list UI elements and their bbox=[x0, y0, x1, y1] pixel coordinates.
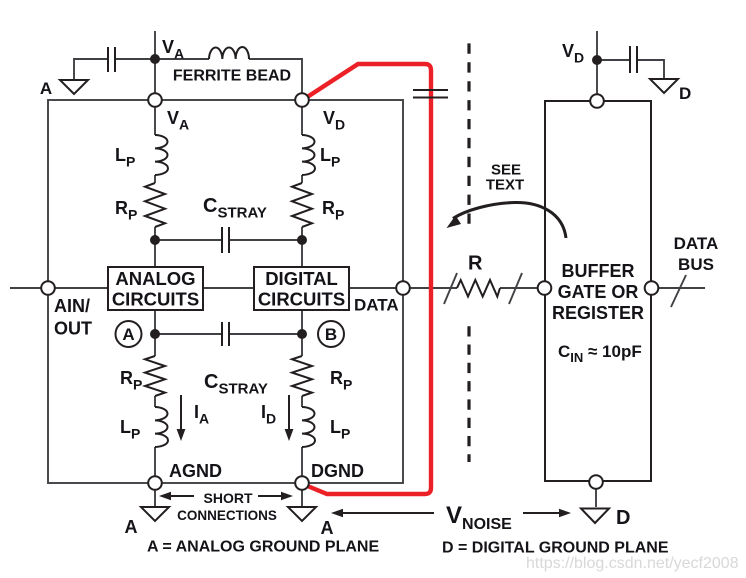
dashed analog/digital boundary line (lower) bbox=[467, 326, 470, 462]
node VD supply dot bbox=[592, 55, 602, 65]
wire VA node to LP coil bbox=[154, 100, 156, 135]
dashed analog/digital boundary line (upper) bbox=[467, 43, 470, 224]
resistor RP upper right bbox=[292, 183, 312, 227]
wire ANALOG box to node A bbox=[154, 310, 156, 356]
junction dot upper left bbox=[150, 235, 160, 245]
svg-text:A: A bbox=[125, 517, 138, 537]
wire main signal line AIN to R bbox=[10, 287, 457, 289]
wire CSTRAY upper left bbox=[155, 239, 222, 241]
red noise current return path bbox=[307, 64, 432, 494]
resistor R (series damping) bbox=[457, 280, 500, 297]
capacitor CSTRAY lower plates bbox=[222, 322, 229, 346]
wire break slash on data bus bbox=[671, 275, 686, 307]
ground symbol A (top left) bbox=[60, 80, 88, 94]
wire ferrite bead top left segment bbox=[155, 58, 209, 60]
wire break slash left of R bbox=[444, 273, 457, 304]
node VA open circle bbox=[148, 93, 162, 107]
svg-text:DATA: DATA bbox=[354, 296, 399, 315]
arrow short connections left bbox=[168, 495, 194, 497]
box ANALOG CIRCUITS bbox=[108, 267, 203, 310]
svg-text:CIRCUITS: CIRCUITS bbox=[112, 289, 199, 310]
node A circled letter bbox=[116, 321, 142, 347]
wire CSTRAY upper right bbox=[229, 239, 302, 241]
wire lower RP to LP (right) bbox=[301, 396, 303, 407]
node VD open circle bbox=[295, 93, 309, 107]
wire ferrite bead right segment down to VD node bbox=[249, 59, 302, 100]
svg-text:A: A bbox=[40, 79, 52, 98]
svg-text:OUT: OUT bbox=[54, 319, 92, 339]
svg-text:D: D bbox=[616, 507, 630, 529]
capacitor CSTRAY upper plates bbox=[222, 227, 229, 253]
svg-text:FERRITE BEAD: FERRITE BEAD bbox=[173, 68, 291, 85]
svg-text:AIN/: AIN/ bbox=[54, 296, 90, 316]
wire decoupling cap to ground A bbox=[74, 59, 108, 80]
svg-text:BUS: BUS bbox=[678, 255, 714, 274]
capacitor C (VA decoupling) plates bbox=[108, 47, 115, 72]
wire lower LP to AGND (left) bbox=[154, 447, 156, 483]
resistor RP lower left bbox=[145, 356, 165, 396]
capacitor stray coupling across red path bbox=[413, 90, 448, 98]
inductor LP lower right bbox=[302, 407, 315, 447]
inductor LP upper right bbox=[302, 135, 315, 175]
svg-text:TEXT: TEXT bbox=[486, 177, 524, 194]
wire lower LP to DGND (right) bbox=[301, 447, 303, 483]
curved arrow SEE TEXT bbox=[453, 202, 566, 238]
ground symbol AGND triangle bbox=[141, 507, 169, 521]
ground symbol D (buffer bottom) bbox=[581, 509, 609, 524]
arrow VNOISE to D bbox=[523, 512, 561, 514]
wire VD node to LP coil bbox=[301, 100, 303, 135]
svg-text:A: A bbox=[122, 325, 134, 344]
svg-text:A: A bbox=[321, 518, 334, 538]
svg-text:D = DIGITAL GROUND PLANE: D = DIGITAL GROUND PLANE bbox=[442, 540, 669, 557]
svg-text:DGND: DGND bbox=[311, 461, 364, 481]
svg-text:https://blog.csdn.net/yecf2008: https://blog.csdn.net/yecf2008 bbox=[526, 555, 739, 572]
svg-text:DIGITAL: DIGITAL bbox=[265, 268, 338, 289]
svg-text:DATA: DATA bbox=[674, 234, 719, 253]
wire DGND node to ground bbox=[301, 483, 303, 507]
wire buffer ground stub bbox=[595, 482, 597, 507]
node buffer input open circle bbox=[538, 281, 552, 295]
box DIGITAL CIRCUITS bbox=[254, 267, 349, 310]
wire VD supply stub (buffer) bbox=[596, 31, 598, 101]
wire break slash right of R bbox=[509, 273, 522, 304]
capacitor C (VD decoupling) plates bbox=[630, 46, 637, 73]
svg-text:R: R bbox=[468, 253, 483, 275]
wire AGND node to ground bbox=[154, 483, 156, 507]
node buffer ground open circle bbox=[589, 475, 603, 489]
inductor LP upper left bbox=[155, 135, 168, 175]
arrow short connections right bbox=[258, 495, 284, 497]
wire LP coil to RP resistor (left) bbox=[154, 175, 156, 183]
wire CSTRAY lower left bbox=[155, 333, 222, 335]
wire LP coil to RP resistor (right) bbox=[301, 175, 303, 183]
svg-text:B: B bbox=[325, 325, 337, 344]
node VA supply dot bbox=[150, 54, 160, 64]
wire VA supply stub bbox=[154, 31, 156, 100]
inductor LP lower left bbox=[155, 407, 168, 447]
wire lower RP to LP (left) bbox=[154, 396, 156, 407]
svg-text:GATE OR: GATE OR bbox=[558, 282, 639, 302]
ground symbol D (top right) bbox=[650, 79, 678, 93]
wire DIGITAL box to node B bbox=[301, 310, 303, 356]
wire RP to DIGITAL box bbox=[301, 227, 303, 267]
node buffer output open circle bbox=[645, 281, 659, 295]
svg-text:AGND: AGND bbox=[169, 461, 222, 481]
node B circled letter bbox=[318, 321, 344, 347]
wire CSTRAY lower right bbox=[229, 333, 302, 335]
svg-text:CONNECTIONS: CONNECTIONS bbox=[177, 508, 277, 523]
svg-text:A = ANALOG GROUND PLANE: A = ANALOG GROUND PLANE bbox=[147, 539, 379, 556]
svg-text:D: D bbox=[679, 84, 691, 103]
svg-text:ANALOG: ANALOG bbox=[115, 268, 195, 289]
junction dot upper right bbox=[297, 235, 307, 245]
arrow current IA bbox=[180, 395, 182, 431]
arrow VNOISE to A bbox=[341, 512, 434, 514]
svg-text:CIRCUITS: CIRCUITS bbox=[258, 289, 345, 310]
svg-text:BUFFER: BUFFER bbox=[562, 261, 635, 281]
node DATA open circle bbox=[396, 281, 410, 295]
node buffer supply open circle bbox=[590, 94, 604, 108]
svg-text:SHORT: SHORT bbox=[204, 490, 253, 506]
box BUFFER GATE OR REGISTER bbox=[545, 101, 651, 481]
junction dot node A bbox=[150, 329, 160, 339]
ground symbol DGND triangle bbox=[288, 507, 316, 521]
svg-text:REGISTER: REGISTER bbox=[552, 303, 644, 323]
junction dot node B bbox=[297, 329, 307, 339]
wire RP to ANALOG box bbox=[154, 227, 156, 267]
wire VD dot to decoupling cap (right) bbox=[597, 59, 630, 61]
arrow current ID bbox=[288, 395, 290, 431]
ground-plane outer rectangle wire bbox=[48, 100, 403, 483]
ferrite bead inductor coil bbox=[209, 47, 249, 59]
node AIN open circle bbox=[41, 281, 55, 295]
node AGND open circle bbox=[148, 476, 162, 490]
resistor RP lower right bbox=[292, 356, 312, 396]
node DGND open circle bbox=[295, 476, 309, 490]
wire VA dot to decoupling cap bbox=[115, 58, 155, 60]
wire decoupling cap to ground D bbox=[637, 60, 664, 79]
resistor RP upper left bbox=[145, 183, 165, 227]
wire R to buffer input bbox=[500, 287, 545, 289]
wire data bus output bbox=[652, 287, 705, 289]
